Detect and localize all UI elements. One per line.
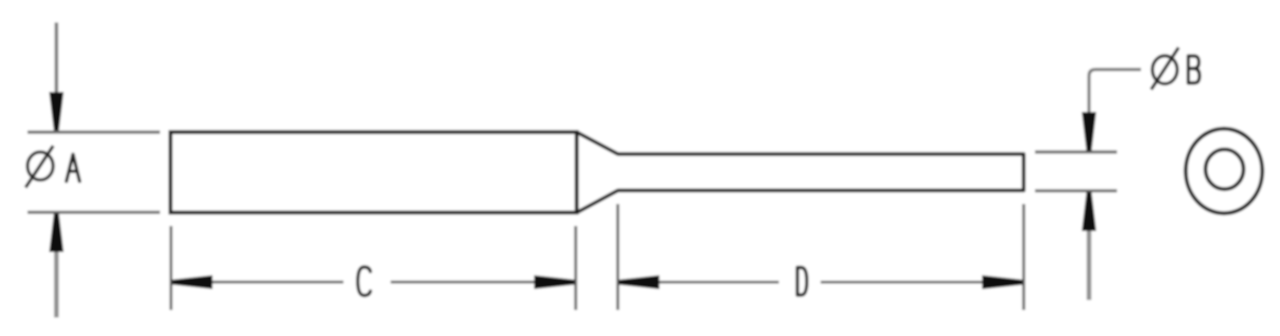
dimension D left arrow bbox=[619, 275, 660, 289]
dimension B upper arrow bbox=[1082, 112, 1096, 151]
dimension A lower line bbox=[54, 232, 59, 318]
label B bbox=[1188, 56, 1199, 83]
extension line C left bbox=[170, 226, 173, 310]
label A bbox=[66, 154, 79, 181]
dimension A upper line bbox=[55, 23, 59, 113]
shaft outline bbox=[618, 154, 1024, 190]
extension line B bottom bbox=[1035, 189, 1117, 192]
dimension A upper arrow bbox=[49, 92, 63, 131]
extension line A bottom bbox=[28, 211, 161, 214]
extension line C right bbox=[574, 226, 577, 310]
dimension B lower line bbox=[1087, 226, 1092, 300]
label D bbox=[797, 268, 806, 296]
extension line A top bbox=[28, 131, 161, 134]
label C bbox=[358, 267, 371, 296]
extension line D left bbox=[616, 204, 619, 310]
label diameter symbol B bbox=[1151, 48, 1178, 90]
dimension C line right segment bbox=[391, 281, 538, 284]
leader line B bbox=[1089, 70, 1141, 116]
dimension C right arrow bbox=[534, 275, 575, 289]
taper top edge bbox=[577, 132, 618, 154]
extension line B top bbox=[1035, 150, 1117, 153]
dimension B lower arrow bbox=[1082, 192, 1096, 231]
dimension D line left segment bbox=[656, 281, 779, 284]
end view outer circle bbox=[1186, 129, 1263, 214]
dimension D right arrow bbox=[982, 275, 1023, 289]
label diameter symbol A bbox=[26, 146, 54, 188]
dimension D line right segment bbox=[821, 281, 985, 284]
extension line D right bbox=[1022, 204, 1025, 310]
dimension C left arrow bbox=[172, 275, 213, 289]
body outline bbox=[171, 132, 577, 213]
taper bottom edge bbox=[577, 190, 618, 212]
end view inner circle bbox=[1206, 149, 1244, 189]
dimension A lower arrow bbox=[49, 213, 63, 252]
dimension C line left segment bbox=[209, 281, 343, 284]
